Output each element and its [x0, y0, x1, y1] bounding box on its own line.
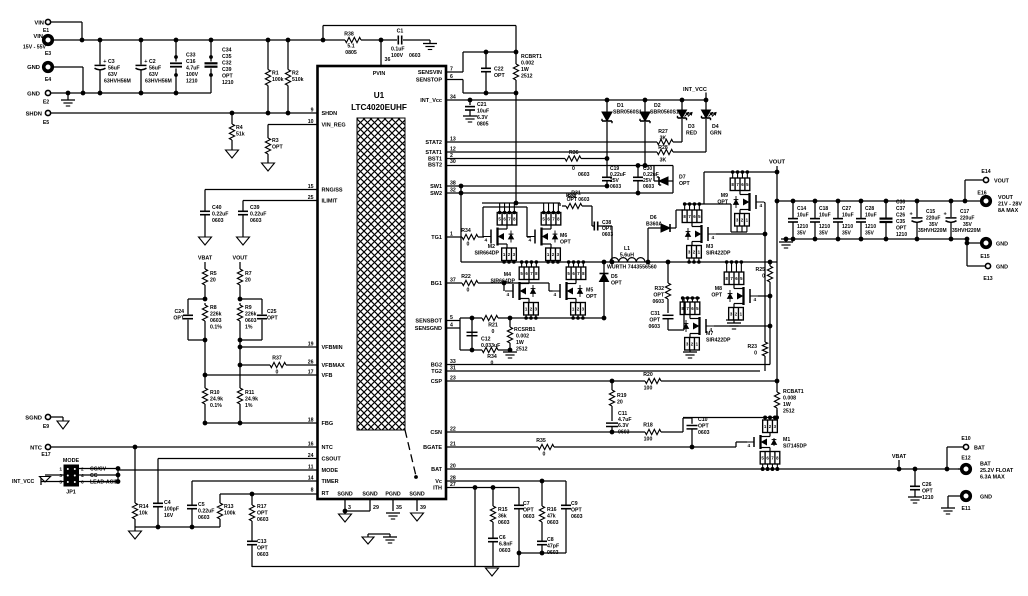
svg-text:0.1%: 0.1%: [210, 403, 222, 409]
svg-text:SGND: SGND: [337, 492, 352, 498]
svg-text:39: 39: [420, 505, 426, 511]
svg-text:E11: E11: [962, 506, 971, 512]
svg-text:6.8nF: 6.8nF: [499, 542, 513, 548]
svg-text:R18: R18: [643, 423, 653, 429]
svg-text:R34: R34: [487, 354, 497, 360]
svg-text:SENSVIN: SENSVIN: [418, 70, 442, 76]
svg-text:0603: 0603: [602, 232, 613, 238]
svg-text:VOUT: VOUT: [769, 160, 786, 166]
svg-text:OPT: OPT: [257, 546, 268, 552]
svg-text:BGATE: BGATE: [423, 445, 442, 451]
svg-text:MODE: MODE: [63, 458, 80, 464]
svg-text:OPT 0603: OPT 0603: [567, 197, 590, 203]
svg-text:BST2: BST2: [428, 163, 442, 169]
svg-text:36: 36: [385, 57, 391, 63]
svg-text:0603: 0603: [257, 552, 269, 558]
svg-text:E2: E2: [43, 100, 49, 106]
svg-text:OPT: OPT: [523, 508, 534, 514]
svg-text:C35: C35: [896, 219, 905, 225]
svg-text:47k: 47k: [547, 514, 556, 520]
svg-text:SENSTOP: SENSTOP: [416, 78, 443, 84]
svg-text:C37: C37: [896, 206, 905, 212]
svg-text:C25: C25: [267, 309, 277, 315]
svg-text:63HVH56M: 63HVH56M: [104, 79, 131, 85]
svg-text:OPT: OPT: [494, 73, 505, 79]
svg-text:0603: 0603: [499, 548, 511, 554]
svg-text:0: 0: [492, 329, 495, 335]
svg-text:6: 6: [81, 480, 84, 486]
svg-text:2512: 2512: [521, 74, 533, 80]
svg-text:20: 20: [617, 400, 623, 406]
svg-text:C22: C22: [494, 67, 504, 73]
svg-text:C14: C14: [797, 206, 806, 212]
svg-text:226k: 226k: [245, 312, 257, 318]
svg-text:10uF: 10uF: [842, 213, 854, 219]
svg-text:R34: R34: [461, 228, 471, 234]
svg-text:OPT: OPT: [711, 293, 722, 299]
svg-text:10: 10: [308, 119, 314, 125]
svg-text:0: 0: [467, 242, 470, 248]
svg-text:M6: M6: [560, 233, 567, 239]
svg-text:R11: R11: [245, 390, 254, 396]
svg-text:VIN: VIN: [33, 34, 43, 40]
svg-text:SIR422DP: SIR422DP: [706, 338, 731, 344]
svg-text:E16: E16: [977, 191, 986, 197]
svg-text:C26: C26: [922, 482, 932, 488]
svg-text:E10: E10: [961, 436, 970, 442]
svg-text:VFBMIN: VFBMIN: [322, 345, 343, 351]
svg-text:5.1: 5.1: [347, 44, 354, 50]
svg-text:+: +: [944, 211, 947, 217]
svg-text:0603: 0603: [547, 520, 559, 526]
svg-text:6.3V: 6.3V: [477, 115, 488, 121]
svg-text:C33: C33: [186, 53, 196, 59]
svg-text:E17: E17: [41, 452, 50, 458]
svg-text:INT_Vcc: INT_Vcc: [420, 98, 442, 104]
svg-text:2: 2: [81, 467, 84, 473]
svg-text:6.3A MAX: 6.3A MAX: [980, 475, 1005, 481]
svg-text:0: 0: [467, 288, 470, 294]
svg-text:TG2: TG2: [431, 369, 442, 375]
svg-text:CC/CV: CC/CV: [90, 467, 107, 473]
svg-text:10uF: 10uF: [477, 109, 489, 115]
svg-text:C32: C32: [222, 61, 232, 67]
svg-text:100: 100: [644, 437, 653, 443]
svg-text:OPT: OPT: [922, 489, 933, 495]
svg-text:15V - 55V: 15V - 55V: [23, 45, 47, 51]
svg-text:4.7uF: 4.7uF: [186, 66, 200, 72]
svg-text:GND: GND: [27, 92, 40, 98]
svg-text:1210: 1210: [922, 495, 934, 501]
svg-text:LEAD-ACID: LEAD-ACID: [90, 480, 119, 486]
svg-text:R10: R10: [210, 390, 220, 396]
svg-text:0603: 0603: [643, 184, 654, 190]
svg-text:RNG/SS: RNG/SS: [322, 188, 343, 194]
svg-text:E14: E14: [981, 169, 990, 175]
svg-text:R1: R1: [272, 71, 279, 77]
svg-text:6.3V: 6.3V: [618, 423, 629, 429]
svg-text:R37: R37: [272, 356, 282, 362]
svg-text:C3: C3: [108, 59, 115, 65]
svg-text:C2: C2: [149, 59, 156, 65]
svg-text:R13: R13: [224, 504, 234, 510]
svg-text:4: 4: [81, 473, 84, 479]
svg-text:C1: C1: [397, 29, 404, 35]
svg-text:OPT: OPT: [586, 294, 597, 300]
svg-text:D4: D4: [712, 124, 719, 130]
svg-text:BG1: BG1: [431, 281, 442, 287]
svg-text:M3: M3: [706, 244, 713, 250]
svg-text:3K: 3K: [660, 136, 667, 142]
svg-text:RCBAT1: RCBAT1: [783, 389, 804, 395]
svg-text:CSOUT: CSOUT: [322, 457, 342, 463]
svg-text:C34: C34: [222, 48, 232, 54]
svg-text:R27: R27: [658, 129, 668, 135]
svg-text:5: 5: [59, 480, 62, 486]
svg-text:SW2: SW2: [430, 191, 442, 197]
svg-text:35V: 35V: [865, 231, 875, 237]
svg-text:C7: C7: [523, 501, 530, 507]
svg-text:ITH: ITH: [433, 486, 442, 492]
svg-text:OPT: OPT: [560, 240, 571, 246]
svg-text:1%: 1%: [245, 325, 253, 331]
svg-text:4: 4: [485, 238, 488, 244]
svg-text:RCBRT1: RCBRT1: [521, 54, 542, 60]
svg-text:0603: 0603: [610, 184, 621, 190]
svg-text:1210: 1210: [186, 79, 198, 85]
svg-text:R3: R3: [272, 138, 279, 144]
svg-text:C13: C13: [257, 539, 267, 545]
svg-text:R2: R2: [292, 71, 299, 77]
svg-text:R28: R28: [658, 145, 668, 151]
svg-text:R20: R20: [643, 372, 653, 378]
svg-text:SHDN: SHDN: [322, 111, 338, 117]
svg-text:U1: U1: [374, 91, 385, 100]
svg-text:C28: C28: [865, 206, 874, 212]
svg-text:0: 0: [543, 452, 546, 458]
svg-text:VOUT: VOUT: [994, 179, 1010, 185]
svg-text:VFBMAX: VFBMAX: [322, 363, 346, 369]
svg-text:24.9k: 24.9k: [210, 397, 223, 403]
svg-text:C36: C36: [896, 200, 905, 206]
svg-text:ILIMIT: ILIMIT: [322, 199, 339, 205]
svg-text:PVIN: PVIN: [373, 71, 386, 77]
svg-text:20: 20: [245, 278, 251, 284]
svg-text:226k: 226k: [210, 312, 222, 318]
svg-text:CSP: CSP: [431, 379, 443, 385]
svg-text:9: 9: [311, 108, 314, 114]
svg-text:0805: 0805: [477, 122, 489, 128]
svg-text:RCSRB1: RCSRB1: [514, 327, 535, 333]
svg-text:0603: 0603: [409, 53, 421, 59]
svg-text:VOUT: VOUT: [233, 256, 249, 262]
svg-text:C31: C31: [650, 311, 660, 317]
svg-text:0.22uF: 0.22uF: [250, 212, 266, 218]
svg-text:R31: R31: [571, 191, 581, 197]
svg-text:5.6uH: 5.6uH: [620, 253, 634, 259]
svg-text:R16: R16: [547, 507, 557, 513]
svg-text:0603: 0603: [578, 172, 590, 178]
svg-text:M4: M4: [504, 272, 511, 278]
svg-text:20: 20: [210, 278, 216, 284]
svg-text:D5: D5: [611, 274, 618, 280]
svg-text:100V: 100V: [186, 72, 199, 78]
svg-text:E15: E15: [980, 254, 989, 260]
svg-text:2512: 2512: [783, 409, 795, 415]
svg-text:SGND: SGND: [25, 416, 42, 422]
svg-text:1210: 1210: [222, 80, 234, 86]
svg-text:1210: 1210: [865, 224, 876, 230]
svg-text:R14: R14: [139, 504, 149, 510]
svg-text:NTC: NTC: [322, 445, 333, 451]
svg-text:E3: E3: [45, 51, 51, 57]
svg-text:CC: CC: [90, 473, 98, 479]
svg-text:OPT: OPT: [649, 318, 660, 324]
svg-text:C16: C16: [186, 59, 196, 65]
svg-text:35V: 35V: [819, 231, 829, 237]
svg-text:C24: C24: [174, 309, 184, 315]
svg-text:36k: 36k: [498, 514, 507, 520]
svg-text:M2: M2: [488, 244, 495, 250]
svg-text:Vc: Vc: [435, 479, 442, 485]
svg-text:R8: R8: [210, 305, 217, 311]
svg-text:3: 3: [348, 505, 351, 511]
svg-text:R9: R9: [245, 305, 252, 311]
svg-text:0603: 0603: [571, 514, 583, 520]
svg-text:100k: 100k: [272, 77, 284, 83]
svg-text:E4: E4: [45, 77, 51, 83]
svg-text:25.2V FLOAT: 25.2V FLOAT: [980, 468, 1014, 474]
svg-text:4: 4: [554, 292, 557, 298]
svg-text:10uF: 10uF: [865, 213, 877, 219]
svg-text:1W: 1W: [516, 340, 524, 346]
svg-text:1210: 1210: [896, 232, 907, 238]
svg-text:GND: GND: [996, 242, 1008, 248]
svg-text:1%: 1%: [245, 403, 253, 409]
svg-text:E9: E9: [43, 424, 49, 430]
svg-text:0.22uF: 0.22uF: [198, 509, 214, 515]
svg-text:RT: RT: [322, 491, 330, 497]
svg-text:0: 0: [572, 166, 575, 172]
svg-text:R35: R35: [536, 438, 546, 444]
svg-text:+: +: [144, 59, 147, 65]
svg-text:RED: RED: [686, 131, 697, 137]
svg-text:SGND: SGND: [362, 492, 377, 498]
svg-text:INT_VCC: INT_VCC: [683, 87, 707, 93]
svg-text:100V: 100V: [391, 53, 404, 59]
svg-text:C21: C21: [477, 102, 487, 108]
svg-text:SI7145DP: SI7145DP: [783, 444, 807, 450]
svg-text:1210: 1210: [797, 224, 808, 230]
svg-text:63V: 63V: [149, 72, 159, 78]
svg-text:R5: R5: [210, 271, 217, 277]
svg-text:OPT: OPT: [272, 145, 283, 151]
svg-text:4: 4: [754, 297, 757, 303]
svg-text:LTC4020EUHF: LTC4020EUHF: [351, 103, 407, 112]
svg-text:OPT: OPT: [698, 424, 709, 430]
svg-text:35V: 35V: [797, 231, 807, 237]
svg-text:D2: D2: [654, 103, 661, 109]
svg-text:R25: R25: [755, 267, 765, 273]
svg-text:30: 30: [450, 159, 456, 165]
svg-text:0603: 0603: [257, 517, 269, 523]
svg-text:63V: 63V: [108, 72, 118, 78]
svg-text:STAT1: STAT1: [425, 150, 442, 156]
svg-text:220uF: 220uF: [960, 216, 974, 222]
svg-text:R17: R17: [257, 504, 267, 510]
svg-text:WURTH 7443556560: WURTH 7443556560: [607, 265, 657, 271]
svg-text:C4: C4: [164, 500, 171, 506]
svg-text:L1: L1: [624, 246, 630, 252]
svg-text:SHDN: SHDN: [26, 112, 42, 118]
svg-text:OPT: OPT: [173, 316, 184, 322]
svg-text:SBR0560S1: SBR0560S1: [613, 110, 642, 116]
svg-text:0603: 0603: [210, 318, 222, 324]
svg-text:CSN: CSN: [430, 430, 442, 436]
svg-text:4: 4: [748, 443, 751, 449]
svg-text:BAT: BAT: [974, 446, 985, 452]
svg-text:M5: M5: [586, 288, 593, 294]
svg-text:E1: E1: [43, 28, 49, 34]
svg-text:4: 4: [712, 235, 715, 241]
svg-text:1210: 1210: [819, 224, 830, 230]
svg-text:SW1: SW1: [430, 184, 442, 190]
svg-text:VIN: VIN: [34, 21, 44, 27]
svg-text:OPT: OPT: [896, 226, 906, 232]
svg-text:FBG: FBG: [322, 421, 334, 427]
svg-text:R32: R32: [654, 286, 664, 292]
svg-text:BAT: BAT: [980, 462, 991, 468]
svg-text:STAT2: STAT2: [425, 140, 442, 146]
svg-text:SENSGND: SENSGND: [415, 326, 442, 332]
svg-text:GRN: GRN: [710, 131, 722, 137]
svg-text:3: 3: [59, 473, 62, 479]
svg-text:0.002: 0.002: [516, 334, 529, 340]
svg-text:4: 4: [760, 203, 763, 209]
svg-text:35V: 35V: [842, 231, 852, 237]
svg-text:VBAT: VBAT: [892, 454, 907, 460]
svg-text:1: 1: [59, 467, 62, 473]
svg-text:C18: C18: [819, 206, 828, 212]
svg-text:C5: C5: [198, 502, 205, 508]
svg-text:VFB: VFB: [322, 373, 333, 379]
svg-text:M1: M1: [783, 437, 790, 443]
svg-text:0.002: 0.002: [521, 61, 534, 67]
svg-text:1W: 1W: [783, 402, 791, 408]
svg-text:OPT: OPT: [611, 281, 622, 287]
svg-text:R19: R19: [617, 393, 627, 399]
svg-text:PGND: PGND: [385, 492, 400, 498]
svg-text:21V - 28V: 21V - 28V: [998, 202, 1022, 208]
svg-text:M7: M7: [706, 331, 713, 337]
svg-text:10uF: 10uF: [819, 213, 831, 219]
svg-text:C12: C12: [481, 337, 491, 343]
svg-text:SIR422DP: SIR422DP: [706, 251, 731, 257]
svg-text:D1: D1: [617, 103, 624, 109]
svg-text:10uF: 10uF: [797, 213, 809, 219]
svg-text:0603: 0603: [698, 430, 710, 436]
svg-text:1210: 1210: [842, 224, 853, 230]
svg-text:C39: C39: [222, 67, 232, 73]
svg-text:56uF: 56uF: [149, 66, 161, 72]
svg-text:MODE: MODE: [322, 468, 339, 474]
svg-text:B360A: B360A: [646, 222, 662, 228]
svg-text:SGND: SGND: [409, 492, 424, 498]
svg-text:0603: 0603: [250, 218, 262, 224]
svg-text:35HVH220M: 35HVH220M: [918, 228, 947, 234]
svg-text:0603: 0603: [245, 318, 257, 324]
svg-text:INT_VCC: INT_VCC: [12, 479, 34, 485]
svg-text:VIN_REG: VIN_REG: [322, 123, 346, 129]
svg-text:0603: 0603: [652, 299, 664, 305]
svg-text:D6: D6: [650, 215, 657, 221]
svg-text:2512: 2512: [516, 347, 528, 353]
svg-text:TG1: TG1: [431, 235, 442, 241]
svg-text:+: +: [103, 59, 106, 65]
svg-text:GND: GND: [27, 65, 40, 71]
svg-text:C39: C39: [250, 205, 260, 211]
svg-text:0603: 0603: [498, 520, 510, 526]
svg-text:3K: 3K: [660, 158, 667, 164]
svg-text:29: 29: [373, 505, 379, 511]
svg-text:D3: D3: [688, 124, 695, 130]
svg-text:GND: GND: [996, 265, 1008, 271]
svg-text:4: 4: [529, 238, 532, 244]
svg-text:8: 8: [311, 488, 314, 494]
svg-text:JP1: JP1: [66, 490, 76, 496]
svg-text:0603: 0603: [523, 514, 535, 520]
svg-text:+: +: [910, 211, 913, 217]
svg-text:R7: R7: [245, 271, 252, 277]
svg-text:GND: GND: [980, 495, 992, 501]
svg-text:SIR664DP: SIR664DP: [474, 251, 499, 257]
svg-text:OPT: OPT: [267, 316, 278, 322]
svg-text:R21: R21: [488, 323, 498, 329]
svg-text:C6: C6: [499, 535, 506, 541]
svg-text:C40: C40: [212, 205, 222, 211]
svg-text:C15: C15: [926, 209, 935, 215]
svg-text:0.1%: 0.1%: [210, 325, 222, 331]
svg-text:0.22uF: 0.22uF: [212, 212, 228, 218]
svg-text:47pF: 47pF: [547, 544, 559, 550]
svg-text:0.033uF: 0.033uF: [481, 343, 500, 349]
svg-text:56uF: 56uF: [108, 66, 120, 72]
svg-text:E5: E5: [43, 120, 49, 126]
svg-text:SBR0560S1: SBR0560S1: [650, 110, 679, 116]
svg-text:OPT: OPT: [679, 181, 690, 187]
svg-text:SENSBOT: SENSBOT: [415, 319, 442, 325]
svg-text:C26: C26: [896, 213, 905, 219]
svg-text:0603: 0603: [648, 324, 660, 330]
svg-text:63HVH56M: 63HVH56M: [145, 79, 172, 85]
svg-text:R22: R22: [461, 274, 471, 280]
svg-text:OPT: OPT: [571, 508, 582, 514]
svg-text:E13: E13: [983, 276, 992, 282]
svg-text:OPT: OPT: [222, 74, 233, 80]
svg-text:R23: R23: [747, 344, 757, 350]
svg-text:0.008: 0.008: [783, 396, 796, 402]
svg-text:TIMER: TIMER: [322, 479, 339, 485]
svg-text:C35: C35: [222, 54, 232, 60]
svg-text:C17: C17: [960, 209, 969, 215]
svg-text:BAT: BAT: [431, 467, 443, 473]
svg-text:R38: R38: [344, 32, 354, 38]
svg-text:C8: C8: [547, 537, 554, 543]
svg-text:BG2: BG2: [431, 363, 442, 369]
svg-text:510k: 510k: [292, 77, 304, 83]
svg-text:16V: 16V: [164, 513, 174, 519]
svg-text:35: 35: [396, 505, 402, 511]
